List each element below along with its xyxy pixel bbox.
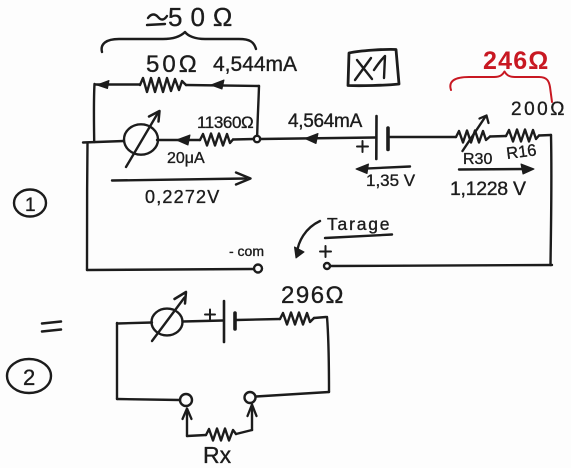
battery B1 (1,35 V) xyxy=(357,116,388,159)
wire: top branch horizontal right segment xyxy=(186,85,259,86)
svg-text:200Ω: 200Ω xyxy=(511,99,567,120)
voltage arrow 1,1228 V xyxy=(459,168,526,171)
node junction (open circle) on main wire xyxy=(254,136,260,142)
arrowhead on main wire (current left, 4,564mA) xyxy=(305,134,318,144)
wire: pot to resistor R16 xyxy=(490,135,506,138)
resistor 50Ω xyxy=(140,78,186,92)
svg-text:Tarage: Tarage xyxy=(327,214,391,234)
wire: resistor to node xyxy=(233,138,254,141)
wire: top branch right vertical xyxy=(257,86,259,135)
galvanometer U2 xyxy=(152,292,187,341)
svg-text:R16: R16 xyxy=(505,141,537,163)
arrowhead at top-left corner xyxy=(97,81,109,89)
svg-text:296Ω: 296Ω xyxy=(281,282,345,309)
wire: left vertical of circuit 2 xyxy=(116,323,118,399)
svg-text:4,544mA: 4,544mA xyxy=(213,53,297,76)
red brace under 246Ω xyxy=(450,72,552,103)
resistor Rx xyxy=(206,429,236,441)
wire: circuit 2 top-left segment xyxy=(117,323,152,324)
terminal left (open circle) xyxy=(180,394,192,406)
svg-text:- com: - com xyxy=(229,243,264,259)
svg-text:4,564mA: 4,564mA xyxy=(288,111,363,132)
probe arrow left (to -com terminal) xyxy=(186,409,188,436)
wire: left vertical of circuit 1 xyxy=(86,143,89,270)
svg-text:2: 2 xyxy=(23,365,35,390)
voltage arrow 0,2272 V xyxy=(112,179,246,181)
terminal -com (open circle) xyxy=(254,265,262,273)
wire: top branch horizontal left segment xyxy=(95,83,140,85)
terminal right (open circle) xyxy=(245,392,256,403)
galvanometer U1 xyxy=(124,111,160,167)
value label ≈50Ω (approx equivalent resistance) xyxy=(147,14,167,25)
brace over 50Ω branch xyxy=(102,32,256,52)
wire: Rx right lead xyxy=(236,430,252,434)
arrowhead on top branch (current direction left) xyxy=(211,80,224,89)
wire: main wire left end to galvanometer xyxy=(83,141,124,143)
multiplier box X1 xyxy=(348,49,399,85)
circled 1 xyxy=(14,190,46,217)
resistor 296Ω xyxy=(280,313,314,325)
circled 2 xyxy=(7,359,51,393)
svg-text:1: 1 xyxy=(25,195,36,216)
svg-text:20μA: 20μA xyxy=(167,150,205,167)
terminal + (open circle) xyxy=(324,263,330,269)
wire: right vertical of circuit 1 xyxy=(549,135,552,265)
wire: galvanometer to battery 2 xyxy=(183,321,224,322)
resistor R16 (200Ω) xyxy=(506,130,539,142)
wire: battery to potentiometer xyxy=(390,136,456,138)
svg-text:1,1228 V: 1,1228 V xyxy=(450,178,526,200)
wire: bottom left segment of circuit 2 xyxy=(117,399,180,400)
svg-text:11360Ω: 11360Ω xyxy=(197,113,253,132)
svg-text:246Ω: 246Ω xyxy=(483,47,550,75)
wire: battery 2 to resistor 296Ω xyxy=(236,319,280,320)
battery B2 xyxy=(205,301,235,342)
probe arrow right (to + terminal) xyxy=(251,405,253,430)
equals sign xyxy=(42,322,61,332)
potentiometer R30 xyxy=(456,116,490,152)
svg-text:0,2272V: 0,2272V xyxy=(145,187,220,207)
wire: right vertical of circuit 2 xyxy=(327,317,329,392)
arrowhead on main wire (current left) xyxy=(177,135,191,145)
resistor 11360Ω xyxy=(200,134,233,146)
wire: Rx left lead xyxy=(187,435,206,436)
svg-text:R30: R30 xyxy=(463,151,492,168)
svg-text:1,35 V: 1,35 V xyxy=(366,171,416,190)
curved arrow to tarage terminals xyxy=(297,221,320,253)
wire: galvanometer to resistor 11360 xyxy=(157,139,200,141)
label + at tarage terminal xyxy=(320,246,331,257)
voltage arrow 1,35 V xyxy=(360,167,410,169)
svg-text:50Ω: 50Ω xyxy=(146,51,200,78)
svg-text:50Ω: 50Ω xyxy=(168,2,240,32)
wire: bottom right segment xyxy=(330,265,552,266)
wire: bottom left segment xyxy=(87,269,253,270)
svg-text:Rx: Rx xyxy=(203,442,232,468)
wire: node to battery xyxy=(260,138,375,140)
wire: 296Ω to right corner xyxy=(314,317,326,318)
wire: top branch left vertical xyxy=(93,84,96,142)
wire: bottom right segment of circuit 2 xyxy=(256,392,329,397)
wire: R16 to right corner xyxy=(539,134,551,137)
